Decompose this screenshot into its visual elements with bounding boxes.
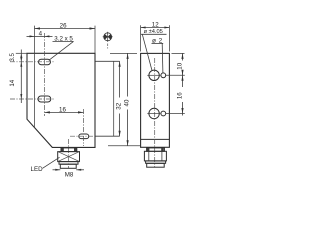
connector left view: collar (59, 162, 78, 165)
hole small top (161, 73, 166, 78)
right connector nut (144, 151, 166, 161)
svg-text:M8: M8 (65, 172, 74, 179)
hole small bottom (161, 111, 166, 116)
svg-text:16: 16 (59, 106, 66, 113)
left view body outline (27, 53, 95, 147)
svg-text:LED: LED (31, 166, 44, 173)
svg-text:ø ±4.05: ø ±4.05 (144, 29, 163, 35)
right connector collar (146, 161, 166, 163)
label ø4.05 underline + leader (141, 33, 167, 35)
optical axis target symbol (104, 33, 112, 41)
dim 3.5 / 14 vertical line (20, 50, 22, 104)
oval4 axis tick y=136.2 (96, 135, 120, 137)
slot2 (38, 96, 51, 102)
hole big bottom (149, 108, 159, 118)
connector centerline x=68.6 (68, 139, 70, 168)
label 3.2 x 5 underline and leader (53, 40, 74, 42)
svg-text:40: 40 (123, 99, 130, 106)
svg-text:3.2 x 5: 3.2 x 5 (54, 36, 73, 43)
svg-text:ø 2: ø 2 (152, 38, 163, 45)
svg-text:12: 12 (152, 21, 159, 28)
svg-text:4: 4 (39, 30, 43, 37)
LED leader (43, 157, 60, 168)
connector left view: neck (61, 148, 77, 152)
right view centerline (154, 58, 156, 168)
optical axis line y=61.8 left (10, 61, 55, 63)
tick y=53.3 between views (110, 52, 137, 54)
mystery vertical x=113.7 (113, 61, 115, 136)
tick y=145.8 (40 bottom) (108, 145, 140, 147)
right dims 10/16 vertical (182, 53, 184, 60)
connector left view: cap (60, 164, 76, 168)
oval4 centerline vertical x=83.5 (83, 109, 85, 146)
dim 12 top right view (141, 27, 170, 29)
dim 26: line and arrows (35, 28, 96, 30)
dim 32 vertical (119, 61, 121, 97)
svg-text:14: 14 (9, 79, 16, 86)
M8 dim arrows (53, 169, 61, 171)
right connector cap (147, 163, 165, 167)
dim 40 vertical (127, 53, 129, 96)
tick top edge level (16, 52, 27, 54)
slot1 (3.2 x 5) (39, 59, 51, 64)
connector left view: nut with thread cross (58, 152, 80, 162)
svg-text:3.5: 3.5 (9, 52, 16, 61)
gap zone: optical axis tick y=61 (96, 60, 120, 62)
svg-text:16: 16 (177, 92, 184, 99)
left view internal edge line (34, 53, 36, 127)
dim 26 extension lines (34, 26, 36, 53)
svg-text:32: 32 (115, 102, 122, 109)
dim 4: line and outside arrows (35, 35, 45, 37)
right connector neck (147, 148, 165, 151)
oval4 mounting hole right side (79, 134, 89, 139)
label ø2 underline + leader (152, 42, 164, 44)
right view step line (141, 138, 170, 140)
right view body (141, 53, 170, 147)
svg-text:26: 26 (60, 23, 67, 30)
right ticks (172, 52, 185, 54)
hole big top (149, 70, 159, 80)
slot2 axis line y=99 (10, 98, 55, 100)
slot centerline vertical x=44.4 (43, 33, 45, 116)
dim 16 bottom left view (44, 111, 83, 113)
oval4 axis dash left part (70, 135, 94, 137)
svg-text:10: 10 (177, 62, 184, 69)
